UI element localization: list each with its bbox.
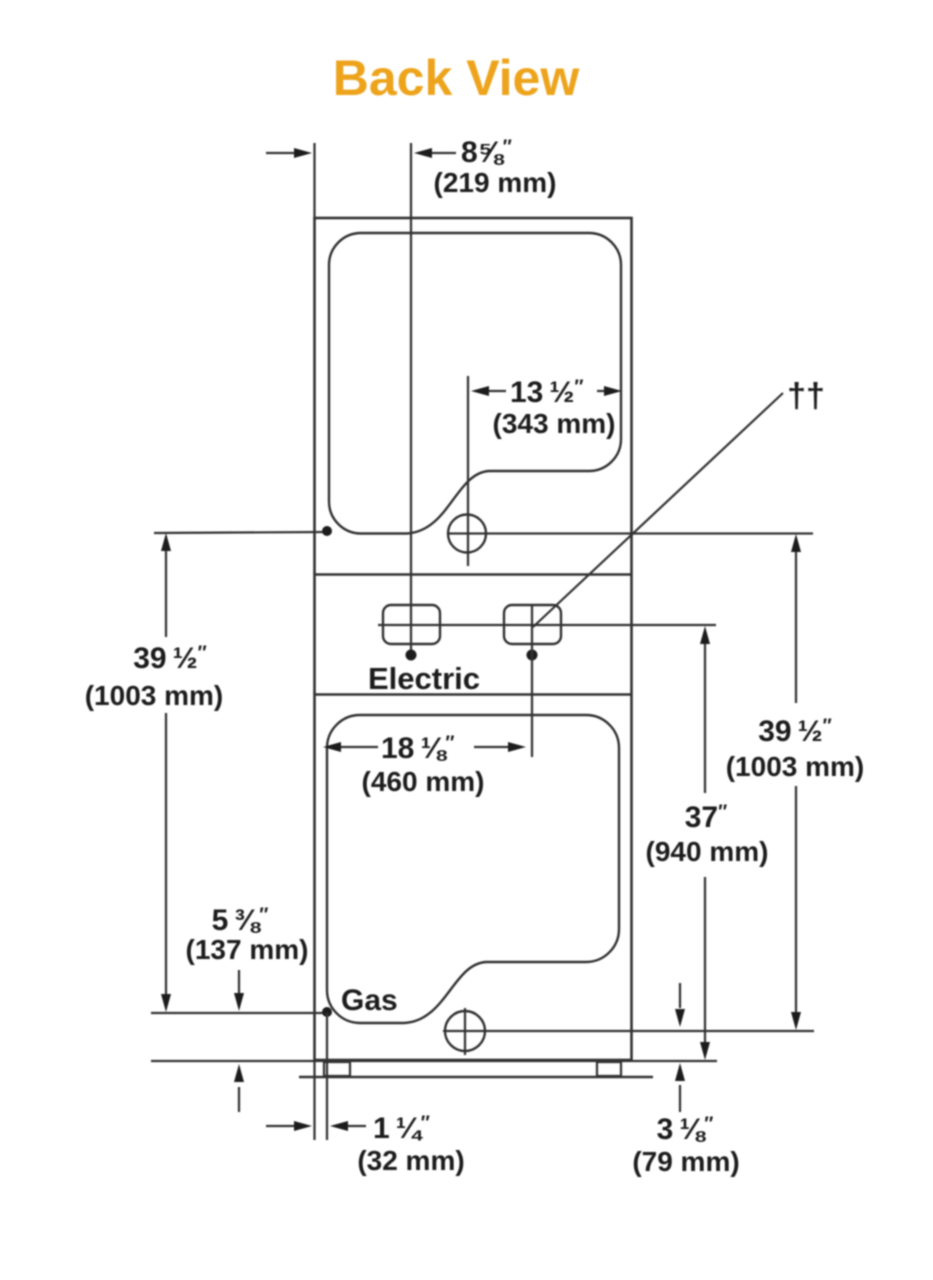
panel edge extension below [326,1013,328,1140]
electric box right [504,605,561,644]
svg-text:(940 mm): (940 mm) [646,836,769,867]
svg-text:5 ⅜″: 5 ⅜″ [212,904,269,937]
upper back panel [329,233,621,534]
separator line upper [315,573,632,575]
dim 13-1/2 left arrow [471,386,506,396]
svg-text:8⅝″: 8⅝″ [461,136,512,169]
reference line upper right through circle [448,532,813,534]
separator line lower [315,693,632,695]
junction dot right electric [527,650,538,661]
unit outline [315,218,632,1060]
svg-text:Gas: Gas [341,984,398,1017]
dim 1-1/4 right arrow [330,1121,366,1131]
dim 37 line [700,626,710,1060]
top extension line of left edge [313,143,315,220]
left foot [324,1062,350,1076]
upper vent circle [448,515,486,553]
left edge extension below [313,1060,315,1140]
bottom line extension [151,1060,717,1062]
svg-text:13 ½″: 13 ½″ [510,376,584,409]
svg-text:(32 mm): (32 mm) [357,1145,464,1176]
svg-text:††: †† [787,377,825,415]
svg-text:18 ⅛″: 18 ⅛″ [381,732,455,765]
ground line [299,1076,653,1078]
lower back panel [327,715,619,1023]
vertical line 8-5/8 [410,143,412,652]
svg-text:37″: 37″ [685,801,727,834]
dim 18-1/8 left arrow [323,742,378,752]
reference line lower right through circle [443,1030,814,1032]
svg-text:(79 mm): (79 mm) [632,1146,739,1177]
diagonal leader to daggers [533,393,783,627]
dim 13-1/2 right arrow [597,386,622,396]
horizontal line through electric boxes [378,624,716,626]
electric box left [383,605,440,644]
vertical line 13-1/2 [467,376,469,566]
svg-text:1 ¼″: 1 ¼″ [373,1112,430,1145]
svg-text:Back View: Back View [333,50,580,106]
reference line upper left (39.5 top) [154,532,327,533]
right dim 39-1/2 line [791,534,801,1030]
svg-text:3 ⅛″: 3 ⅛″ [657,1113,714,1146]
svg-text:(1003 mm): (1003 mm) [85,680,224,711]
dim 18-1/8 right arrow [474,742,526,752]
svg-text:39 ½″: 39 ½″ [133,642,207,675]
dim 3-1/8 arrows [675,983,685,1112]
junction dot gas [322,1007,332,1017]
dim 1-1/4 left arrow [266,1121,312,1131]
vertical line electric right / 18-1/8 [531,605,533,757]
svg-text:(219 mm): (219 mm) [434,167,557,198]
lower circle crosshair vertical [464,1008,466,1055]
junction dot left electric [406,650,417,661]
svg-text:(460 mm): (460 mm) [362,766,485,797]
svg-text:(343 mm): (343 mm) [493,408,616,439]
reference line gas left [151,1012,327,1014]
svg-text:Electric: Electric [368,661,480,696]
right foot [597,1062,621,1076]
dim 8-5/8 right arrow [414,148,456,158]
svg-text:(1003 mm): (1003 mm) [726,751,865,782]
lower vent circle [445,1011,485,1051]
dim 5-3/8 arrows [234,970,244,1112]
dim 8-5/8 left arrow [266,148,312,158]
svg-text:39 ½″: 39 ½″ [758,715,832,748]
left dim 39-1/2 line [161,533,171,1012]
svg-text:(137 mm): (137 mm) [186,934,309,965]
junction dot upper panel corner [322,526,332,536]
